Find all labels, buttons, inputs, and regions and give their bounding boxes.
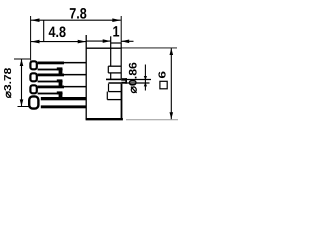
arrowhead dia3.78 top pointing up: [20, 59, 24, 66]
finger 1 top bar: [38, 62, 64, 65]
finger 3 top bar: [38, 86, 64, 89]
finger 2 tail line to body: [64, 74, 86, 76]
square symbol of square-6: [160, 81, 167, 89]
slot bottom line: [108, 72, 121, 74]
arrowhead 4.8 left: [31, 40, 40, 44]
dia0.86 top extension line: [127, 79, 151, 81]
finger 1 bend block: [57, 67, 63, 70]
wall below pin x=108.5: [108, 84, 110, 92]
finger 1 tail line to body: [64, 62, 86, 64]
column top edge: [111, 42, 122, 44]
column right edge: [120, 43, 122, 79]
6-dim vertical line x=171.3: [170, 48, 172, 119]
6-dim top extension line: [121, 47, 177, 49]
arrowhead 7.8 right: [112, 18, 121, 22]
body left edge: [85, 35, 87, 120]
dimension 1 left arrow line: [86, 40, 111, 42]
dia3.78 top extension line: [14, 58, 30, 60]
finger 2 bend block: [57, 79, 63, 82]
solder leg top bar: [41, 97, 86, 100]
center pin upper band: [121, 78, 127, 81]
finger 3 bend block: [57, 91, 63, 94]
dia0.86 bottom extension line: [127, 82, 150, 84]
pin top line inside column: [106, 78, 121, 80]
body bottom edge: [86, 118, 123, 120]
finger 2 bottom bar: [38, 81, 63, 83]
arrowhead dia0.86 upper pointing down: [144, 76, 147, 80]
dia3.78 dim line x=21.5: [21, 59, 23, 106]
connector vertical line x=43.7 between dim lines: [43, 20, 45, 41]
arrowhead dia0.86 lower pointing up: [144, 82, 147, 86]
svg-text:1: 1: [112, 24, 119, 41]
extension line right x=121.2: [120, 16, 122, 43]
dia0.86 dim line vertical: [144, 65, 146, 91]
svg-text:⌀0.86: ⌀0.86: [127, 62, 139, 93]
column right lower edge: [121, 84, 123, 120]
body top edge: [86, 47, 121, 49]
slot top line: [108, 65, 121, 67]
svg-text:⌀3.78: ⌀3.78: [3, 67, 14, 98]
finger 1 bridge: [59, 70, 63, 73]
lower line y=91.6: [109, 91, 122, 93]
finger 2 bridge: [59, 82, 63, 85]
slot left wall: [107, 66, 109, 73]
pcb line gray: [126, 119, 178, 121]
extension line left x=30.6: [30, 16, 32, 61]
finger 1 bottom bar: [38, 69, 63, 71]
column left edge mid: [110, 73, 112, 79]
arrowhead dia3.78 bottom pointing down: [20, 99, 24, 106]
finger 3 hook: [30, 85, 36, 93]
step bottom line y=99.6: [107, 99, 121, 101]
svg-text:6: 6: [156, 71, 168, 79]
dimension 7.8 line: [31, 19, 121, 21]
solder leg hook: [29, 96, 38, 108]
finger 3 bottom bar: [38, 93, 63, 95]
finger 1 hook: [30, 61, 36, 69]
arrowhead 4.8 right: [78, 40, 87, 44]
arrowhead 7.8 left: [31, 18, 40, 22]
column left edge upper: [110, 36, 112, 66]
finger 2 hook: [30, 73, 36, 81]
arrowhead 1 right outside pointing left: [121, 40, 129, 44]
arrowhead 6 bottom pointing down: [170, 112, 174, 119]
arrowhead 1 left outside pointing right: [103, 39, 111, 43]
dia3.78 bottom extension line: [18, 106, 30, 108]
dimension 4.8 line: [31, 41, 86, 43]
finger 3 tail line to body: [64, 86, 86, 88]
finger 3 bridge: [59, 94, 63, 97]
center pin lower band: [121, 82, 127, 84]
solder leg bottom bar: [41, 105, 86, 108]
pin bottom line inside column: [109, 82, 122, 84]
step left wall x=107.3: [106, 92, 108, 100]
dimension 1 right arrow line: [121, 40, 133, 42]
svg-text:4.8: 4.8: [49, 24, 67, 41]
center pin end cap: [125, 78, 127, 84]
arrowhead 6 top pointing up: [170, 48, 174, 55]
finger 2 top bar: [38, 74, 64, 77]
